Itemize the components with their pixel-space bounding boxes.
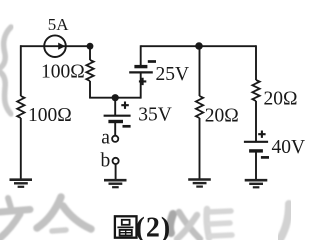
wire mid horizontal (89, 97, 141, 99)
watermark bottom-left strokes (0, 197, 91, 238)
wire left vertical upper (20, 45, 22, 96)
ground middle (188, 180, 211, 187)
current source arrow (58, 43, 65, 50)
node junction dot top-left (87, 43, 94, 50)
current source I1 5A (44, 35, 66, 57)
svg-text:100Ω: 100Ω (28, 105, 72, 126)
wire right branch upper (255, 45, 257, 80)
ground left (10, 180, 33, 187)
caption glyph tu (figure) (115, 216, 137, 237)
wire left vertical lower (20, 118, 22, 180)
node junction dot mid (112, 94, 119, 101)
svg-text:a: a (101, 128, 110, 149)
wire right branch lower (255, 151, 257, 180)
battery B1 minus sign (148, 60, 156, 63)
wire 25V branch lower (140, 72, 142, 98)
wire top-left horizontal (20, 45, 90, 47)
watermark bottom-right stroke (280, 204, 289, 239)
battery B2 35V plus plate (104, 115, 131, 117)
battery B3 minus sign (261, 156, 269, 159)
battery B2 minus sign (123, 125, 131, 128)
resistor R1 100ohm left (17, 96, 24, 118)
resistor R3 20ohm middle (196, 96, 203, 118)
wire right branch middle (255, 101, 257, 142)
svg-text:5A: 5A (48, 15, 70, 34)
wire stub junction to R2 (89, 46, 91, 60)
wire middle branch lower (199, 118, 201, 179)
battery B2 35V stub (114, 98, 116, 116)
battery B3 40V plus plate (244, 141, 268, 143)
wire top-right horizontal (141, 45, 256, 47)
watermark bottom-middle strokes (170, 209, 232, 239)
svg-text:40V: 40V (272, 137, 306, 158)
resistor R2 100ohm top (86, 60, 93, 81)
svg-text:b: b (101, 151, 111, 172)
watermark left brace (0, 27, 11, 114)
ground center (104, 180, 127, 187)
battery B3 plus sign (258, 131, 265, 138)
resistor R4 20ohm right (252, 80, 259, 101)
node junction dot top-mid (195, 42, 203, 50)
ground right (245, 180, 268, 187)
battery B2 plus sign (121, 102, 129, 109)
battery B2 35V minus plate (108, 120, 123, 123)
wire 25V branch upper (140, 45, 142, 65)
svg-text:20Ω: 20Ω (264, 89, 298, 110)
terminal a (112, 136, 118, 142)
svg-text:35V: 35V (138, 104, 172, 125)
battery B3 40V minus plate (249, 149, 263, 152)
svg-text:20Ω: 20Ω (205, 106, 239, 127)
wire middle branch upper (199, 46, 201, 96)
wire terminal b to ground (115, 164, 117, 180)
wire R2 to mid node (89, 81, 91, 98)
svg-text:100Ω: 100Ω (41, 62, 85, 83)
battery B1 25V plus plate (129, 71, 153, 73)
terminal b (113, 158, 119, 164)
battery B1 plus sign (139, 78, 146, 85)
wire 35V to terminal a (114, 122, 116, 136)
svg-text:25V: 25V (156, 64, 190, 85)
battery B1 25V minus plate (134, 65, 147, 68)
svg-text:(2): (2) (136, 213, 172, 240)
